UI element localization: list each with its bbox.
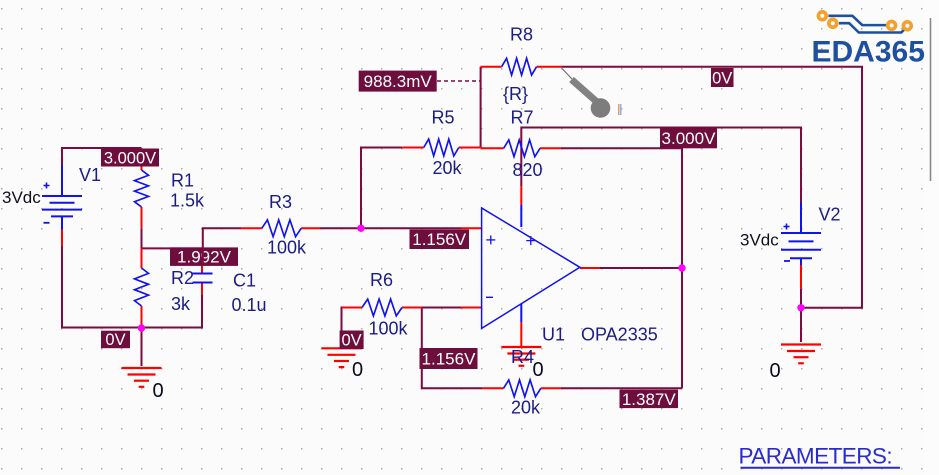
- pin opamp V+: [520, 186, 522, 205]
- resistor R5: [424, 139, 459, 156]
- op-amp U1: [482, 208, 580, 328]
- wire +in node up to R5: [361, 148, 402, 229]
- wire 3.000V supply rail: [521, 128, 801, 203]
- wire V2 minus stub: [800, 289, 802, 342]
- wire C1 bottom to ground rail: [62, 246, 202, 328]
- voltage label 1.156V (lower): [420, 348, 478, 369]
- voltage label 3.000V (supply): [660, 128, 717, 148]
- EDA365 logo pads: [818, 12, 826, 20]
- svg-text:3Vdc: 3Vdc: [2, 188, 41, 207]
- resistor R1: [135, 170, 149, 207]
- wire R7 right to output riser: [561, 148, 682, 388]
- svg-text:EDA365: EDA365: [812, 36, 925, 69]
- ground R6 (node 0): [322, 348, 362, 367]
- svg-text:1.5k: 1.5k: [170, 191, 205, 211]
- wire R8 right to top-right corner down to V2 minus: [562, 67, 862, 308]
- voltage label 1.156V (+in): [410, 230, 470, 250]
- pins C1: [201, 265, 203, 295]
- svg-text:0: 0: [770, 360, 781, 382]
- voltage label 3.000V (V1 top): [101, 149, 159, 167]
- svg-text:20k: 20k: [433, 158, 463, 178]
- wire R6 left corner to ground: [342, 308, 346, 345]
- wire R5/R7 junction up to R8: [480, 67, 482, 148]
- voltage label 1.387V: [620, 390, 679, 409]
- svg-text:0.1u: 0.1u: [232, 295, 267, 315]
- pins R6: [342, 307, 422, 309]
- op-amp V+ pin stub: [520, 205, 522, 227]
- V1 plus mark: [44, 183, 50, 189]
- svg-text:3Vdc: 3Vdc: [740, 231, 779, 250]
- svg-text:3.000V: 3.000V: [662, 129, 717, 148]
- pins R4: [483, 387, 561, 389]
- capacitor C1: [193, 274, 213, 283]
- svg-text:R5: R5: [432, 108, 455, 128]
- wire C1 riser over label: [202, 248, 204, 265]
- op-amp +in mark: [486, 235, 495, 244]
- resistor R2: [135, 268, 149, 306]
- svg-text:988.3mV: 988.3mV: [364, 72, 433, 91]
- svg-text:1.156V: 1.156V: [422, 349, 477, 368]
- svg-text:OPA2335: OPA2335: [581, 325, 658, 345]
- resistor R3: [262, 220, 301, 237]
- wire opamp output: [597, 267, 682, 269]
- pin V1 bottom: [61, 230, 63, 247]
- V1 minus mark: [44, 222, 50, 224]
- svg-text:1.387V: 1.387V: [622, 390, 677, 409]
- svg-text:U1: U1: [542, 325, 565, 345]
- svg-text:1.992V: 1.992V: [177, 248, 232, 267]
- svg-text:0: 0: [533, 359, 544, 381]
- wire R3 to opamp +in: [320, 227, 461, 229]
- svg-text:V2: V2: [819, 205, 841, 225]
- V2 plus mark: [784, 224, 790, 230]
- pins R1: [141, 148, 143, 228]
- EDA365 logo traces: [828, 16, 905, 33]
- source V2 battery: [781, 202, 821, 265]
- svg-text:0: 0: [153, 380, 164, 402]
- pin opamp output: [580, 267, 600, 269]
- pin opamp +in: [461, 227, 482, 229]
- svg-text:820: 820: [513, 160, 543, 180]
- svg-text:100k: 100k: [267, 238, 307, 258]
- svg-text:20k: 20k: [511, 398, 541, 418]
- svg-text:PARAMETERS:: PARAMETERS:: [739, 444, 893, 469]
- resistor R8: [502, 58, 537, 75]
- window edge strip: [926, 0, 939, 475]
- voltage label 1.992V: [170, 247, 238, 266]
- svg-text:1.156V: 1.156V: [412, 230, 467, 249]
- svg-text:0: 0: [352, 359, 363, 381]
- source V1 battery: [42, 165, 82, 230]
- wire 1.992V node horizontal: [142, 247, 203, 249]
- pins R5: [402, 147, 480, 149]
- current probe icon: [562, 69, 622, 118]
- V2 minus mark: [784, 260, 790, 262]
- svg-text:R1: R1: [171, 171, 194, 191]
- op-amp V+ mark: [526, 236, 535, 245]
- ground op-amp V- (node 0): [501, 347, 541, 366]
- voltage label 0V (R6): [340, 331, 364, 350]
- pins R3: [241, 227, 320, 229]
- pin opamp -in: [461, 307, 482, 309]
- node junction dots: [138, 324, 145, 331]
- voltage label 988.3mV: [359, 71, 437, 92]
- svg-text:0V: 0V: [712, 69, 732, 87]
- op-amp V- pin stub: [520, 304, 522, 322]
- svg-text:R7: R7: [511, 108, 534, 128]
- pin V2 bottom: [800, 265, 802, 289]
- svg-text:R4: R4: [511, 347, 534, 367]
- svg-text:100k: 100k: [369, 319, 409, 339]
- wire feedback bottom R4 right: [561, 387, 682, 389]
- voltage label 0V (left): [101, 331, 130, 349]
- voltage label 0V (top right): [711, 68, 734, 87]
- resistor R4: [504, 380, 541, 397]
- svg-text:V1: V1: [79, 165, 101, 185]
- wire R4 left to -in riser: [422, 308, 483, 389]
- resistor R6: [362, 299, 402, 316]
- wire V1 top to R1: [62, 148, 142, 196]
- wire R1 bottom to 1.992V node: [141, 228, 143, 248]
- svg-text:{R}: {R}: [503, 84, 528, 104]
- pins R7: [481, 147, 561, 149]
- wire C1 top riser to R3: [203, 228, 242, 265]
- svg-text:0V: 0V: [105, 331, 125, 349]
- svg-text:3k: 3k: [171, 294, 191, 314]
- svg-text:3.000V: 3.000V: [104, 149, 156, 167]
- svg-text:R6: R6: [370, 270, 393, 290]
- svg-text:C1: C1: [233, 271, 256, 291]
- svg-text:0V: 0V: [342, 332, 362, 350]
- svg-text:R3: R3: [269, 192, 292, 212]
- svg-text:R8: R8: [510, 25, 533, 45]
- ground V2 (node 0): [781, 345, 821, 364]
- resistor R7: [504, 140, 540, 157]
- pins R2: [141, 248, 143, 327]
- pin opamp V-: [520, 322, 522, 347]
- op-amp -in mark: [486, 296, 493, 298]
- wire ground drop left: [141, 328, 143, 366]
- pins R8: [481, 66, 562, 68]
- dashed probe-label leader: [437, 80, 481, 82]
- ground left (node 0): [122, 368, 162, 387]
- svg-text:R2: R2: [171, 268, 194, 288]
